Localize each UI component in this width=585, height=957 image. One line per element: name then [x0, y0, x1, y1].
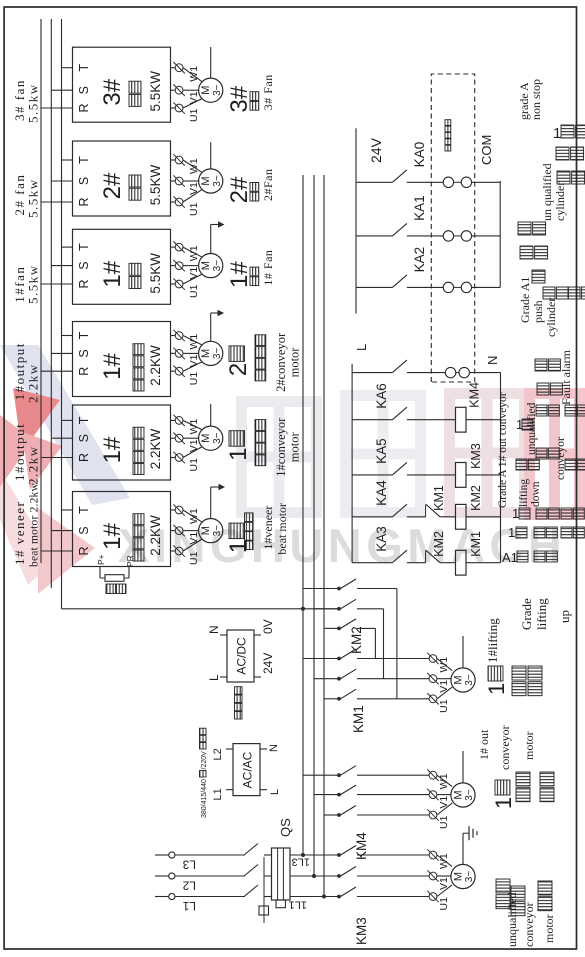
wire W1 to motor — [183, 68, 202, 82]
wire box output — [171, 107, 176, 109]
coil KM4 — [456, 407, 467, 432]
QS handle — [259, 906, 269, 915]
wire motor lead — [462, 636, 464, 668]
terminal out-conveyor V1 — [427, 789, 438, 800]
wire KM2 pole feed — [324, 627, 339, 629]
watermark glyph blocks — [236, 396, 322, 518]
contact KM1 blade — [341, 669, 357, 679]
wire QS output — [290, 875, 339, 877]
wire PR from resistor — [128, 567, 130, 579]
wire to motor — [437, 687, 452, 699]
wire cross to U — [374, 628, 376, 658]
wire coil to N — [466, 516, 501, 518]
wire box output — [171, 530, 176, 532]
motor M out conveyor — [451, 783, 475, 807]
stub 24V — [254, 676, 261, 678]
terminal W1 — [173, 330, 184, 341]
wire motor lead bend — [211, 486, 219, 488]
contact KM2 blade — [341, 579, 357, 589]
power supply AC/DC — [227, 630, 254, 682]
stub L — [220, 676, 227, 678]
wire S stub — [51, 265, 72, 267]
label grade CJK — [229, 431, 245, 447]
wire box output — [171, 67, 176, 69]
wire — [407, 235, 443, 237]
wire box output — [171, 335, 176, 337]
contact KA6 NO — [392, 407, 407, 420]
contact KM1 NC bar — [425, 504, 427, 516]
wire KM1 pole feed — [314, 678, 339, 680]
wire L rail — [351, 364, 353, 563]
motor M reject conveyor — [451, 864, 475, 888]
contact KM2 NC bar — [425, 550, 427, 562]
wire S stub — [51, 180, 72, 182]
wire KM4 pole feed — [324, 814, 339, 816]
terminal strip box (dashed) — [431, 74, 474, 382]
wire box output — [171, 419, 176, 421]
wire to COM — [472, 286, 501, 288]
wire cross to V — [383, 609, 385, 679]
terminal out-conveyor U1 — [427, 809, 438, 820]
terminal L2 — [169, 873, 175, 879]
wire to motor — [437, 803, 452, 815]
label grade CJK — [229, 346, 245, 362]
wire S phase bus — [50, 19, 52, 588]
wire box output — [171, 180, 176, 182]
QS linkage — [263, 857, 265, 923]
terminal V1 — [173, 175, 184, 186]
motor M grade-1 conveyor — [199, 426, 223, 450]
inverter 2# fan 5.5KW — [73, 141, 171, 216]
wire box output — [171, 201, 176, 203]
wire R stub — [41, 107, 73, 109]
wire to COM — [472, 235, 501, 237]
wire rung KA0 — [356, 181, 392, 183]
wire coil to N — [466, 419, 501, 421]
wire motor lead — [210, 225, 212, 254]
wire S stub — [51, 530, 72, 532]
wire KM2 pole3 out — [357, 627, 375, 629]
switch QS body — [272, 848, 291, 900]
wire — [407, 474, 456, 476]
wire — [407, 372, 446, 374]
svg-text:1: 1 — [508, 525, 515, 540]
contact KM4 fixed — [337, 813, 341, 817]
wire riser L1 phase — [302, 175, 304, 855]
terminal W1 — [173, 504, 184, 515]
terminal strip point — [443, 177, 453, 187]
wire R stub — [41, 457, 73, 459]
wire KM4 pole feed — [314, 794, 339, 796]
wire into QS — [264, 854, 272, 856]
wire KM4 output — [357, 774, 429, 776]
contact KM1 blade — [341, 689, 357, 699]
contact KM2 fixed — [337, 607, 341, 611]
wire KM3 output — [357, 854, 429, 856]
terminal reject-conveyor W1 — [427, 849, 438, 860]
wire U1 to motor — [183, 274, 202, 284]
stub N — [260, 748, 267, 750]
wire KM4 output — [357, 794, 429, 796]
svg-text:A1: A1 — [502, 550, 518, 565]
wire W1 to motor — [183, 160, 202, 173]
coil KM1 — [456, 550, 467, 575]
wire — [440, 562, 456, 564]
terminal reject-conveyor U1 — [427, 891, 438, 902]
contact KM4 blade — [341, 806, 357, 816]
motor M veneer beat — [199, 519, 223, 543]
wire U1 to motor — [183, 99, 202, 108]
motor M lifting — [451, 668, 475, 692]
contact KM2 blade — [341, 619, 357, 629]
wire riser L3 phase — [323, 175, 325, 897]
wire U1 to motor — [183, 189, 202, 202]
wire KM3 output — [357, 896, 429, 898]
wire to motor — [437, 885, 452, 897]
wire T stub — [62, 246, 73, 248]
label reject conveyor CJK — [496, 879, 510, 893]
contact KM4 blade — [341, 785, 357, 795]
contact KA2 NO — [392, 275, 407, 288]
motor M grade-2 conveyor — [199, 341, 223, 365]
wire motor lead bend — [211, 224, 218, 226]
wire to QS — [175, 875, 245, 877]
wire box output — [171, 352, 176, 354]
wire to COM — [472, 181, 501, 183]
terminal V1 — [173, 348, 184, 359]
wire motor lead — [210, 404, 212, 426]
contact KM1 blade — [341, 649, 357, 659]
wire motor lead bend — [211, 312, 218, 314]
label motor CJK — [255, 370, 266, 381]
wire R stub — [41, 550, 73, 552]
wire — [407, 286, 443, 288]
label terminal strip CJK — [445, 145, 451, 151]
wire V1 to motor — [183, 265, 199, 267]
inverter 1# fan 5.5KW — [73, 229, 171, 304]
wire incoming L3 — [155, 854, 169, 856]
wire KM4 pole feed — [303, 774, 339, 776]
wire V1 to motor — [183, 180, 199, 182]
wire rung alarm — [352, 372, 392, 374]
coil KM3 — [456, 463, 467, 488]
QS blade L2 — [244, 865, 258, 877]
junction L2/riser2 — [312, 874, 316, 878]
label switching PSU CJK — [235, 712, 243, 720]
wire T stub — [62, 335, 73, 337]
wire QS output — [290, 896, 339, 898]
contact KM3 fixed — [337, 853, 341, 857]
wire N rail — [500, 373, 502, 563]
contact KA1 NO — [392, 223, 407, 236]
VFD 1# conveyor out 2.2KW — [73, 322, 171, 397]
label grade CJK — [229, 523, 245, 539]
wire — [407, 181, 443, 183]
motor M 1# fan — [199, 253, 223, 277]
wire motor lead — [462, 751, 464, 783]
wire KM2 pole1 out — [357, 588, 397, 590]
wire to motor — [437, 659, 452, 671]
terminal reject-conveyor V1 — [427, 870, 438, 881]
wire to motor — [437, 678, 451, 680]
wire incoming L1 — [155, 896, 169, 898]
wire rung KA1 — [356, 235, 392, 237]
terminal lifting U1 — [427, 693, 438, 704]
wire coil to N — [466, 474, 501, 476]
terminal lifting W1 — [427, 653, 438, 664]
contact KA3 NO — [392, 550, 407, 563]
wire coil to N — [466, 562, 501, 564]
wire incoming L2 — [155, 875, 169, 877]
contact KM3 fixed — [337, 895, 341, 899]
wire motor lead — [462, 833, 464, 864]
terminal U1 — [173, 452, 184, 463]
wire box output — [171, 437, 176, 439]
contact KA4 NO — [392, 504, 407, 517]
contact KM1 fixed — [337, 677, 341, 681]
stub L1 — [226, 789, 233, 791]
wire KM4 output — [357, 814, 429, 816]
wire KM1 output — [357, 698, 429, 700]
wire T stub — [62, 67, 73, 69]
terminal W1 — [173, 241, 184, 252]
terminal V1 — [173, 433, 184, 444]
transformer AC/AC — [233, 744, 260, 796]
wire into QS — [264, 896, 272, 898]
label fault alarm CJK group — [535, 359, 547, 371]
wire KM1 output — [357, 658, 429, 660]
contact KM2 fixed — [337, 587, 341, 591]
arrow motor lead — [218, 221, 225, 227]
terminal V1 — [173, 85, 184, 96]
wire U1 to motor — [183, 447, 202, 458]
stub N — [220, 634, 227, 636]
wire motor lead — [210, 142, 212, 169]
terminal U1 — [173, 278, 184, 289]
VFD 1# conveyor 2.2KW — [73, 405, 171, 480]
wire KM2 pole feed — [303, 588, 339, 590]
arrow motor lead — [219, 484, 226, 490]
wire box output — [171, 283, 176, 285]
wire W1 to motor — [183, 510, 202, 522]
arrow motor lead — [218, 310, 225, 316]
wire box output — [171, 159, 176, 161]
contact KM3 blade — [341, 867, 357, 877]
wire rung KA3 — [352, 562, 392, 564]
stub L — [260, 789, 267, 791]
label KA2 cylinder CJK group — [532, 270, 545, 283]
contact KM4 fixed — [337, 793, 341, 797]
wire motor lead — [210, 313, 212, 341]
wire to QS — [175, 854, 245, 856]
wire T stub — [62, 419, 73, 421]
terminal U1 — [173, 366, 184, 377]
terminal lifting V1 — [427, 673, 438, 684]
wire box output — [171, 457, 176, 459]
stub 0V — [254, 634, 261, 636]
label motor CJK — [250, 277, 259, 286]
wire T phase bus — [61, 19, 63, 609]
label out conveyor CJK — [516, 772, 530, 786]
label motor CJK — [250, 101, 259, 110]
terminal out-conveyor W1 — [427, 770, 438, 781]
wire — [407, 562, 426, 564]
label motor CJK — [255, 455, 266, 466]
wire T stub — [62, 509, 73, 511]
wire rung KA5 — [352, 474, 392, 476]
wire T bus drop — [62, 608, 340, 610]
stub L2 — [226, 748, 233, 750]
wire W1 to motor — [183, 420, 202, 429]
contact KM4 blade — [341, 766, 357, 776]
contact KM3 blade — [341, 846, 357, 856]
terminal W1 — [173, 415, 184, 426]
contact KM2 blade — [341, 599, 357, 609]
wire V1 to motor — [183, 530, 199, 532]
wire KM1 output — [357, 678, 429, 680]
contact KM2 fixed — [337, 627, 341, 631]
wire KM3 output — [357, 875, 429, 877]
servo 1# veneer beat 2.2KW — [73, 492, 171, 567]
QS tab — [276, 900, 285, 908]
wire to N — [469, 372, 500, 374]
wire box output — [171, 509, 176, 511]
terminal V1 — [173, 525, 184, 536]
terminal L1 — [169, 893, 175, 899]
terminal strip point — [443, 231, 453, 241]
wire KM2 pole2 out — [357, 608, 384, 610]
coil KM2 — [456, 504, 467, 529]
watermark logo bands — [0, 345, 130, 505]
wire to motor — [437, 875, 451, 877]
wire 24V rail — [355, 128, 357, 313]
terminal U1 — [173, 196, 184, 207]
inverter 3# fan 5.5KW — [73, 47, 171, 122]
terminal strip point — [461, 177, 471, 187]
wire box output — [171, 89, 176, 91]
label motor CJK — [245, 541, 254, 550]
wire motor lead — [210, 47, 212, 78]
wire riser L2 phase — [313, 175, 315, 876]
terminal W1 — [173, 62, 184, 73]
label resistor CJK — [106, 584, 116, 594]
wire R stub — [41, 201, 73, 203]
wire box output — [171, 550, 176, 552]
wire KM2 pole feed — [314, 608, 339, 610]
terminal W1 — [173, 154, 184, 165]
wire W1 to motor — [183, 247, 202, 257]
wire U1 to motor — [183, 539, 202, 551]
terminal L3 — [169, 852, 175, 858]
wire S stub — [51, 437, 72, 439]
motor M 2# fan — [199, 169, 223, 193]
wire rung KA2 — [356, 286, 392, 288]
terminal strip point — [445, 367, 455, 377]
wire P+ to resistor — [99, 567, 101, 579]
wire to QS — [175, 896, 245, 898]
wire QS output — [290, 854, 339, 856]
wire — [407, 516, 426, 518]
contact KM3 blade — [341, 887, 357, 897]
wire box output — [171, 265, 176, 267]
wire U1 to motor — [183, 362, 202, 371]
wire S stub — [51, 89, 72, 91]
wire cross to W — [396, 589, 398, 699]
contact KA5 NO — [392, 462, 407, 475]
junction T-drop/riser1 — [301, 607, 305, 611]
resistor braking R — [105, 575, 124, 582]
wire KM1 pole feed — [324, 698, 339, 700]
wire — [407, 419, 456, 421]
wire W1 to motor — [183, 336, 202, 346]
terminal U1 — [173, 102, 184, 113]
wire R stub — [41, 370, 73, 372]
terminal strip point — [461, 282, 471, 292]
svg-text:1: 1 — [553, 125, 561, 142]
label motor CJK — [250, 192, 259, 201]
terminal U1 — [173, 545, 184, 556]
wire T stub — [62, 159, 73, 161]
wire to motor — [437, 775, 452, 786]
wire R phase bus — [40, 19, 42, 563]
contact KM3 fixed — [337, 874, 341, 878]
wire COM rail — [499, 181, 501, 287]
contact KM4 fixed — [337, 773, 341, 777]
contact KM1 NC blade — [426, 504, 440, 516]
svg-text:1: 1 — [512, 506, 519, 521]
contact KA0 NO — [392, 170, 407, 183]
QS blade L3 — [244, 844, 258, 856]
contact alarm — [392, 360, 407, 373]
wire rung KA4 — [352, 516, 392, 518]
terminal strip point — [443, 282, 453, 292]
contact KM2 NC blade — [426, 550, 440, 562]
junction L1/riser3 — [322, 895, 326, 899]
terminal strip point — [461, 231, 471, 241]
motor M 3# fan — [199, 78, 223, 102]
label KM3 circuit CJK — [516, 459, 527, 470]
terminal strip point — [459, 367, 469, 377]
QS blade L1 — [244, 885, 258, 897]
label KA1 cylinder CJK group — [518, 222, 531, 235]
wire KM1 pole feed — [303, 658, 339, 660]
wire box output — [171, 246, 176, 248]
wire V1 to motor — [183, 352, 199, 354]
wire — [440, 516, 456, 518]
wire R stub — [41, 283, 73, 285]
contact KM1 fixed — [337, 697, 341, 701]
terminal V1 — [173, 260, 184, 271]
wire V1 to motor — [183, 89, 199, 91]
junction L3/riser1 — [301, 853, 305, 857]
wire V1 to motor — [183, 437, 199, 439]
wire into QS — [264, 875, 272, 877]
wire motor lead — [210, 487, 212, 519]
wire to motor — [437, 794, 451, 796]
wire rung KA6 — [352, 419, 392, 421]
ground earth symbol — [463, 832, 469, 834]
wire to motor — [437, 855, 452, 867]
wire box output — [171, 370, 176, 372]
wire S stub — [51, 352, 72, 354]
contact KM1 fixed — [337, 657, 341, 661]
